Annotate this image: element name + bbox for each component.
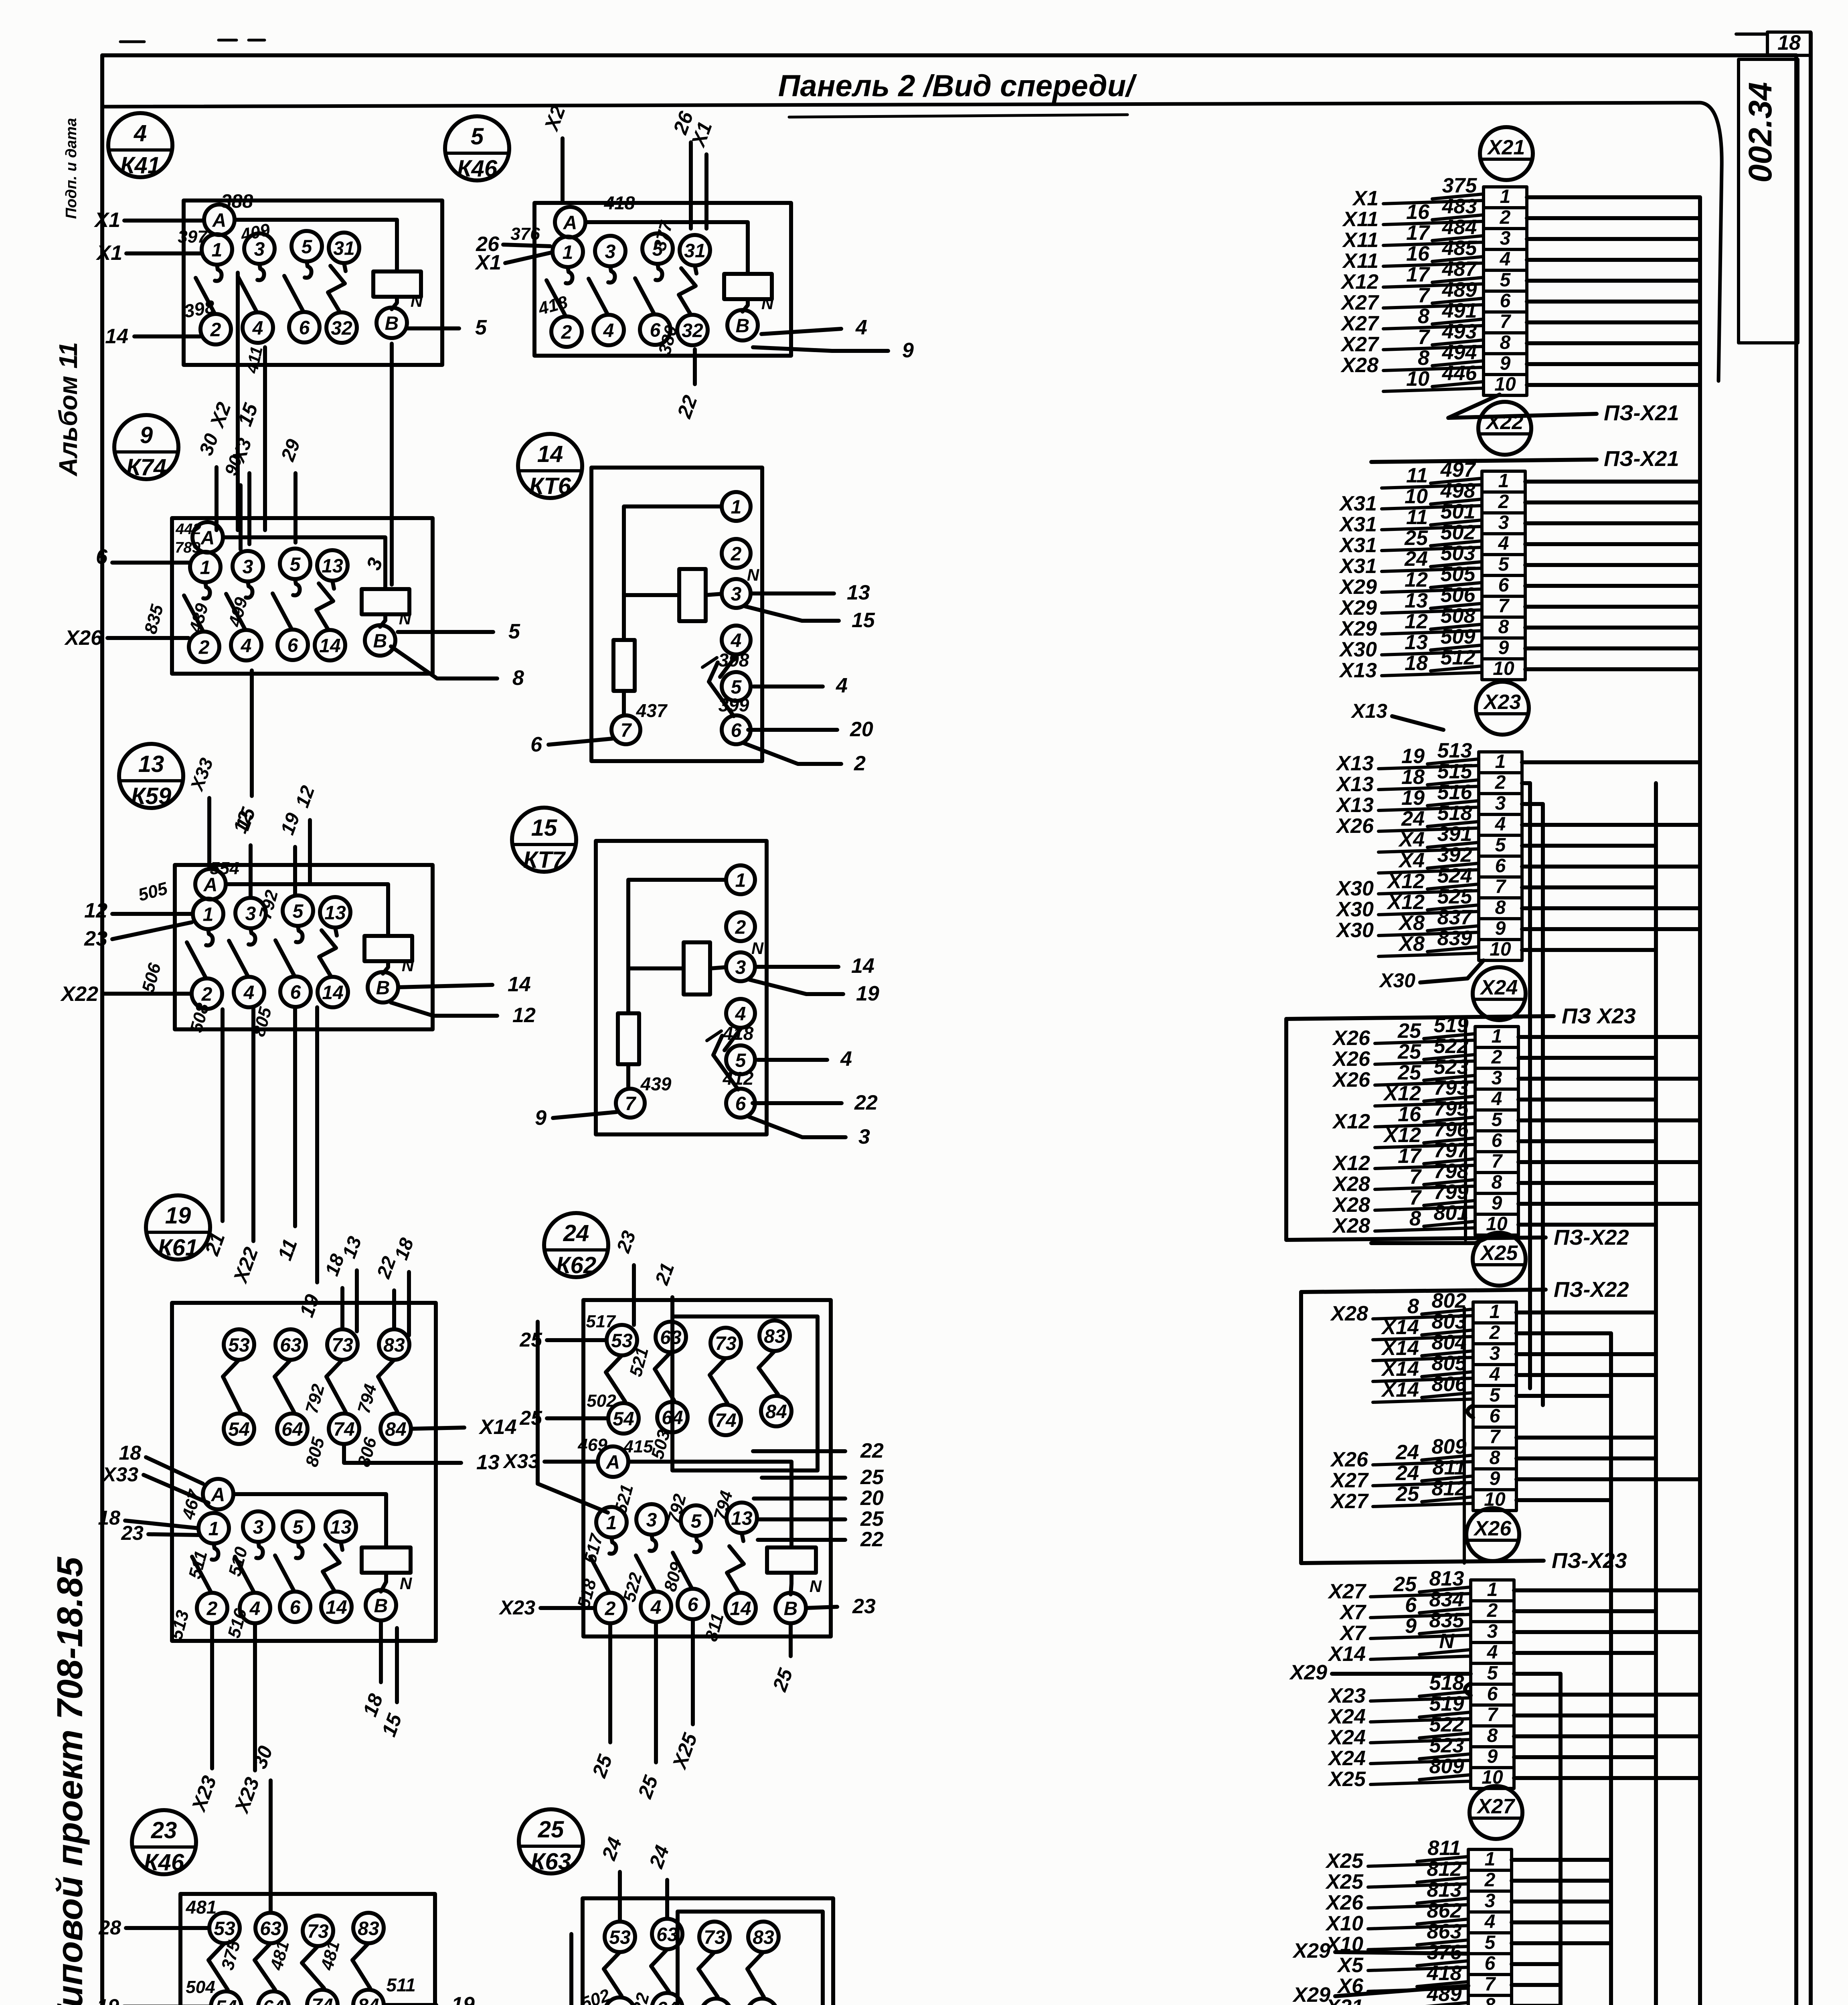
svg-text:Х29: Х29 [1338,617,1377,640]
svg-text:Х29: Х29 [1289,1661,1327,1684]
svg-text:84: 84 [765,1401,787,1422]
svg-text:Х1: Х1 [474,251,501,274]
svg-text:13: 13 [476,1451,500,1474]
svg-text:25: 25 [538,1817,564,1843]
svg-text:К46: К46 [457,156,498,182]
svg-text:Х24: Х24 [1327,1726,1366,1749]
svg-text:Х31: Х31 [1338,534,1377,557]
svg-text:В: В [784,1598,798,1619]
svg-text:7: 7 [1487,1704,1499,1726]
svg-text:13: 13 [330,1517,352,1538]
svg-text:8: 8 [1418,305,1429,328]
svg-text:Х30: Х30 [1335,919,1374,942]
svg-text:18: 18 [98,1507,120,1529]
svg-text:3: 3 [1492,1067,1502,1089]
svg-text:5: 5 [1500,269,1511,291]
svg-text:10: 10 [1490,939,1511,960]
svg-text:Х12: Х12 [1340,270,1378,294]
svg-text:8: 8 [1418,346,1429,370]
svg-text:2: 2 [735,917,746,938]
svg-text:25: 25 [1395,1482,1419,1506]
svg-text:Х21: Х21 [1487,136,1525,159]
svg-text:А: А [200,527,215,549]
svg-text:2: 2 [198,637,210,658]
svg-text:3: 3 [245,903,256,924]
svg-text:А: А [211,1484,225,1505]
svg-text:Х11: Х11 [1342,249,1378,273]
svg-text:13: 13 [847,581,870,604]
svg-text:Х7: Х7 [1339,1622,1366,1645]
svg-text:388: 388 [221,191,253,212]
svg-text:8: 8 [1500,332,1511,353]
svg-text:К61: К61 [158,1235,198,1261]
svg-text:Х13: Х13 [1338,659,1377,682]
svg-text:398: 398 [719,650,749,670]
svg-text:9: 9 [1500,353,1511,374]
svg-text:Подп. и дата: Подп. и дата [63,118,80,219]
svg-text:4: 4 [855,316,867,339]
svg-text:7: 7 [1485,1974,1496,1995]
svg-text:399: 399 [719,695,749,715]
svg-text:ПЗ-Х23: ПЗ-Х23 [1552,1549,1627,1573]
svg-text:Х1: Х1 [93,209,120,232]
svg-text:Х27: Х27 [1340,291,1379,314]
svg-text:25: 25 [1397,1019,1421,1043]
svg-text:9: 9 [1495,918,1506,939]
svg-text:18: 18 [1777,31,1801,55]
svg-text:10: 10 [1494,374,1516,395]
svg-text:1: 1 [212,239,223,261]
svg-text:83: 83 [383,1335,405,1356]
svg-text:К62: К62 [556,1252,596,1278]
svg-text:13: 13 [324,902,346,924]
svg-text:1: 1 [606,1512,617,1533]
svg-text:Х29: Х29 [1292,1939,1330,1962]
svg-text:19: 19 [1401,786,1425,810]
svg-text:Х27: Х27 [1330,1469,1369,1492]
svg-text:Панель 2 /Вид спереди/: Панель 2 /Вид спереди/ [778,69,1137,103]
svg-text:24: 24 [1401,807,1425,830]
svg-text:14: 14 [105,325,128,348]
svg-text:N: N [1439,1630,1455,1653]
svg-text:17: 17 [1406,263,1430,286]
svg-text:18: 18 [1405,652,1428,675]
svg-text:53: 53 [609,1927,631,1948]
svg-text:К46: К46 [144,1849,184,1875]
svg-text:Х12: Х12 [1386,870,1425,893]
svg-text:3: 3 [731,583,742,605]
svg-text:412: 412 [723,1068,754,1089]
svg-text:Х12: Х12 [1382,1082,1421,1105]
svg-text:14: 14 [326,1597,347,1618]
svg-text:ПЗ Х23: ПЗ Х23 [1562,1004,1636,1028]
svg-text:Х27: Х27 [1476,1795,1516,1818]
svg-text:511: 511 [386,1975,415,1995]
svg-text:12: 12 [84,899,107,922]
svg-text:Х28: Х28 [1332,1214,1370,1237]
svg-text:9: 9 [1490,1468,1500,1489]
svg-text:Х14: Х14 [478,1416,517,1439]
svg-text:17: 17 [1406,221,1430,245]
svg-text:14: 14 [730,1598,751,1619]
svg-text:Х33: Х33 [101,1463,138,1486]
svg-text:6: 6 [299,317,310,338]
svg-text:14: 14 [508,973,531,996]
svg-text:Х14: Х14 [1380,1316,1419,1339]
svg-text:4: 4 [134,120,147,146]
svg-text:64: 64 [656,1998,678,2005]
svg-text:2: 2 [1495,772,1506,793]
svg-text:Х4: Х4 [1398,828,1425,851]
svg-text:6: 6 [735,1093,746,1114]
svg-text:13: 13 [138,751,164,777]
svg-text:19: 19 [856,982,879,1005]
svg-text:2: 2 [561,322,572,343]
svg-text:Х26: Х26 [1325,1891,1364,1914]
svg-text:Х1: Х1 [95,241,122,265]
svg-text:6: 6 [1500,290,1511,312]
svg-text:24: 24 [1404,547,1428,571]
svg-text:6: 6 [1495,855,1506,877]
svg-text:789: 789 [175,539,200,556]
svg-text:Х23: Х23 [498,1596,535,1619]
svg-text:4: 4 [249,1598,261,1619]
svg-text:5: 5 [1492,1109,1503,1130]
svg-text:19: 19 [97,1995,119,2005]
svg-text:491: 491 [1427,2003,1462,2005]
svg-text:1: 1 [203,904,214,925]
svg-text:13: 13 [731,1508,753,1529]
svg-text:9: 9 [1487,1746,1498,1767]
svg-text:22: 22 [854,1091,878,1114]
svg-text:4: 4 [840,1047,852,1071]
svg-text:Х12: Х12 [1386,891,1425,914]
svg-text:3: 3 [1495,793,1506,814]
svg-text:Х8: Х8 [1398,932,1425,956]
svg-text:11: 11 [1406,506,1428,529]
svg-text:6: 6 [1498,575,1509,596]
svg-text:Х29: Х29 [1292,1983,1330,2005]
svg-text:84: 84 [358,1995,379,2005]
svg-text:54: 54 [609,2003,630,2005]
svg-text:Х30: Х30 [1338,638,1377,661]
svg-text:9: 9 [1498,637,1509,658]
svg-text:6: 6 [1487,1683,1498,1705]
svg-text:8: 8 [1485,1995,1496,2005]
svg-text:11: 11 [1406,464,1428,487]
svg-text:63: 63 [280,1335,302,1356]
svg-text:1: 1 [208,1518,219,1539]
svg-text:Х24: Х24 [1480,976,1518,999]
svg-text:6: 6 [96,545,108,569]
svg-text:3: 3 [253,1517,264,1538]
svg-text:А: А [563,212,577,233]
svg-text:28: 28 [98,1916,121,1939]
svg-text:3: 3 [1485,1890,1496,1912]
svg-text:9: 9 [1405,1614,1417,1638]
svg-text:14: 14 [322,982,343,1003]
svg-text:73: 73 [704,1927,725,1948]
svg-text:24: 24 [563,1220,589,1246]
svg-text:6: 6 [1485,1953,1496,1974]
svg-text:442: 442 [175,521,201,538]
svg-text:Х13: Х13 [1335,794,1374,817]
svg-text:10: 10 [1406,367,1429,391]
svg-text:6: 6 [1490,1406,1500,1427]
svg-text:5: 5 [475,316,487,339]
svg-text:Х11: Х11 [1342,208,1378,231]
svg-text:Х26: Х26 [1332,1068,1370,1092]
svg-text:54: 54 [228,1419,249,1440]
svg-text:4: 4 [241,635,252,656]
svg-text:8: 8 [1407,1295,1419,1318]
svg-text:8: 8 [1498,616,1509,638]
svg-text:8: 8 [1495,897,1506,918]
svg-text:К74: К74 [126,454,166,480]
svg-text:22: 22 [860,1528,884,1551]
svg-text:418: 418 [604,192,635,213]
svg-text:74: 74 [312,1995,333,2005]
svg-text:24: 24 [547,2001,569,2005]
svg-text:23: 23 [151,1817,177,1843]
svg-text:В: В [736,315,750,336]
svg-text:Х14: Х14 [1380,1378,1419,1401]
svg-text:53: 53 [214,1918,235,1939]
svg-text:Х13: Х13 [1350,700,1387,722]
svg-text:74: 74 [715,1410,736,1431]
svg-text:Х28: Х28 [1330,1302,1368,1325]
svg-text:4: 4 [1487,1642,1498,1663]
svg-text:4: 4 [1489,1364,1500,1385]
svg-text:19: 19 [1401,745,1425,768]
svg-text:63: 63 [260,1918,281,1939]
svg-text:4: 4 [1500,249,1511,270]
svg-text:1: 1 [1498,470,1509,492]
svg-text:5: 5 [1485,1932,1496,1953]
svg-text:К63: К63 [531,1849,571,1875]
svg-text:8: 8 [1487,1725,1498,1746]
svg-text:6: 6 [1492,1130,1502,1151]
svg-text:5: 5 [471,124,484,150]
svg-text:Х30: Х30 [1378,969,1415,992]
svg-text:Х26: Х26 [1330,1448,1368,1471]
svg-text:53: 53 [611,1330,633,1351]
svg-text:18: 18 [119,1442,141,1464]
svg-text:Х26: Х26 [1332,1027,1370,1050]
svg-text:19: 19 [451,1993,475,2005]
svg-text:Х22: Х22 [60,982,98,1006]
svg-text:2: 2 [1489,1322,1500,1343]
svg-text:7: 7 [1498,595,1510,617]
svg-text:4: 4 [252,318,263,339]
svg-text:376: 376 [510,224,540,244]
svg-text:N: N [399,609,412,628]
svg-text:4: 4 [1491,1088,1502,1110]
svg-text:3: 3 [858,1125,870,1148]
svg-text:Х13: Х13 [1335,752,1374,775]
svg-text:7: 7 [1418,326,1430,349]
svg-text:1: 1 [563,242,573,263]
svg-text:10: 10 [1493,658,1514,679]
svg-text:4: 4 [1484,1911,1496,1932]
svg-text:ПЗ-Х21: ПЗ-Х21 [1604,401,1679,425]
svg-text:8: 8 [1492,1172,1502,1193]
svg-text:КТ7: КТ7 [523,847,566,873]
svg-text:6: 6 [688,1594,698,1615]
svg-text:Х11: Х11 [1342,229,1378,252]
svg-text:74: 74 [333,1419,354,1440]
svg-text:Х31: Х31 [1338,555,1377,578]
svg-text:64: 64 [263,1997,284,2005]
svg-text:3: 3 [1490,1343,1500,1364]
svg-text:Х33: Х33 [502,1450,539,1472]
svg-text:502: 502 [587,1391,616,1411]
svg-text:13: 13 [1405,589,1428,612]
svg-text:N: N [810,1577,822,1596]
svg-text:504: 504 [186,1977,215,1997]
svg-text:24: 24 [1395,1441,1419,1464]
svg-text:8: 8 [512,666,524,690]
svg-text:16: 16 [1406,200,1430,224]
svg-text:2: 2 [731,543,742,565]
svg-text:Х31: Х31 [1338,513,1377,536]
svg-text:63: 63 [660,1327,682,1348]
svg-text:Х30: Х30 [1335,898,1374,921]
svg-text:25: 25 [1393,1573,1417,1596]
svg-text:53: 53 [228,1335,250,1356]
svg-text:9: 9 [1492,1193,1502,1214]
svg-text:К41: К41 [120,152,160,178]
svg-text:439: 439 [640,1073,672,1094]
svg-text:25: 25 [1397,1061,1421,1084]
svg-text:4: 4 [243,982,255,1003]
svg-text:Х12: Х12 [1382,1124,1421,1147]
svg-text:517: 517 [586,1312,616,1331]
svg-text:ПЗ-Х21: ПЗ-Х21 [1604,447,1679,471]
svg-text:Х12: Х12 [1332,1110,1370,1133]
svg-text:N: N [761,294,774,313]
svg-text:3: 3 [646,1509,657,1531]
svg-text:Х27: Х27 [1340,333,1379,356]
svg-text:9: 9 [535,1106,547,1130]
svg-text:Х26: Х26 [1335,814,1374,838]
svg-text:6: 6 [530,733,542,756]
svg-text:ПЗ-Х22: ПЗ-Х22 [1554,1278,1629,1302]
svg-text:15: 15 [852,609,875,632]
svg-text:Х25: Х25 [1325,1849,1364,1873]
svg-text:В: В [376,977,390,998]
svg-text:6: 6 [287,635,298,656]
svg-text:415: 415 [623,1437,653,1456]
svg-text:Х28: Х28 [1340,354,1378,377]
svg-text:25: 25 [860,1466,884,1489]
svg-text:16: 16 [1406,242,1430,265]
svg-text:В: В [374,1595,388,1616]
svg-text:554: 554 [210,859,239,878]
svg-text:1: 1 [1487,1579,1498,1600]
svg-text:1: 1 [1485,1849,1496,1870]
svg-text:15: 15 [531,815,557,841]
svg-text:2: 2 [1487,1600,1498,1621]
svg-text:7: 7 [625,1093,637,1114]
svg-text:Х27: Х27 [1340,312,1379,335]
svg-text:Х23: Х23 [1483,691,1521,714]
svg-text:К59: К59 [131,783,171,809]
svg-text:13: 13 [1405,631,1428,654]
svg-text:Х13: Х13 [1335,773,1374,796]
svg-text:7: 7 [1418,284,1430,307]
svg-text:20: 20 [860,1487,884,1510]
svg-text:5: 5 [302,236,313,257]
svg-text:5: 5 [293,901,304,922]
svg-text:14: 14 [851,954,874,978]
svg-text:1: 1 [1490,1301,1500,1322]
svg-text:N: N [400,1574,413,1593]
svg-text:5: 5 [293,1517,304,1538]
svg-text:84: 84 [385,1419,406,1440]
svg-text:54: 54 [215,1997,237,2005]
svg-text:25: 25 [1404,527,1428,550]
svg-text:13: 13 [322,555,343,577]
svg-text:73: 73 [715,1333,737,1354]
svg-text:Х22: Х22 [1485,411,1524,434]
svg-text:ПЗ-Х22: ПЗ-Х22 [1554,1225,1629,1250]
svg-text:14: 14 [537,441,563,467]
svg-text:22: 22 [860,1439,884,1462]
svg-text:002.34: 002.34 [1742,82,1779,183]
svg-text:2: 2 [206,1598,218,1619]
svg-text:Х14: Х14 [1380,1337,1419,1360]
svg-text:5: 5 [1498,554,1510,575]
svg-text:12: 12 [512,1004,536,1027]
svg-text:54: 54 [613,1408,634,1430]
svg-text:8: 8 [1490,1447,1500,1468]
svg-text:3: 3 [1487,1621,1498,1642]
svg-text:83: 83 [764,1326,785,1347]
svg-text:N: N [747,565,760,584]
svg-text:5: 5 [290,554,301,575]
svg-text:Х8: Х8 [1398,911,1425,935]
svg-text:1: 1 [1492,1026,1502,1047]
svg-text:Х4: Х4 [1398,849,1425,872]
svg-text:Х30: Х30 [1335,877,1374,900]
svg-text:Х25: Х25 [1327,1768,1366,1791]
svg-text:18: 18 [1401,766,1425,789]
svg-text:5: 5 [691,1511,702,1532]
svg-text:Х25: Х25 [1480,1241,1518,1265]
svg-text:3: 3 [605,241,616,262]
svg-text:9: 9 [902,339,914,362]
svg-text:1: 1 [735,870,746,891]
svg-text:20: 20 [850,718,873,741]
svg-text:3: 3 [1500,228,1511,249]
svg-text:Х26: Х26 [64,626,103,650]
svg-text:2: 2 [1500,207,1511,228]
svg-text:73: 73 [332,1335,353,1356]
svg-text:2: 2 [1484,1869,1496,1891]
svg-text:469: 469 [577,1435,607,1455]
svg-text:Х1: Х1 [1352,187,1378,210]
svg-text:1: 1 [1495,751,1506,772]
svg-text:4: 4 [650,1597,662,1618]
svg-text:7: 7 [1409,1165,1422,1189]
svg-text:Х29: Х29 [1338,596,1377,620]
svg-text:83: 83 [358,1918,379,1939]
svg-text:25: 25 [1397,1040,1421,1063]
svg-text:Х10: Х10 [1325,1912,1363,1935]
svg-text:2: 2 [1491,1047,1502,1068]
svg-text:В: В [373,630,387,652]
